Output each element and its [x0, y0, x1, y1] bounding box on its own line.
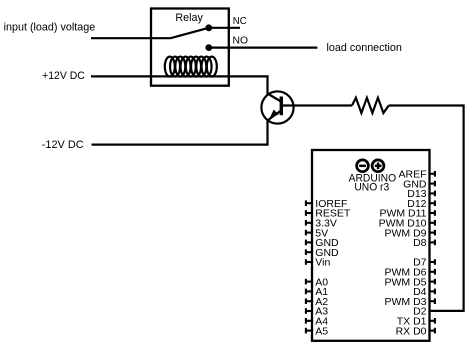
pin stub A3 (left) [306, 308, 313, 314]
svg-text:UNO r3: UNO r3 [354, 182, 389, 194]
wire: +12V line [91, 76, 268, 94]
logo minus [359, 165, 366, 168]
pin stub GND (left) [306, 249, 313, 255]
Q1 emitter arrow [270, 110, 279, 118]
svg-text:-12V DC: -12V DC [42, 139, 84, 151]
svg-text:RX D0: RX D0 [396, 325, 427, 337]
svg-text:D8: D8 [413, 237, 427, 249]
Arduino logo [357, 160, 384, 172]
wire: emitter to -12V [92, 120, 268, 145]
pin stub D13 (right) [429, 191, 435, 197]
pin stub D4 (right) [429, 289, 435, 295]
pin stub D7 (right) [429, 259, 435, 265]
resistor R1 [352, 98, 389, 113]
pin stub A0 (left) [306, 279, 313, 285]
relay coil L1 [165, 57, 217, 77]
logo right circle [372, 160, 384, 172]
wire: resistor to D2 [389, 106, 464, 311]
pin stub AREF (right) [429, 171, 435, 177]
pin stub Vin (left) [306, 259, 313, 265]
wire: input line [91, 37, 171, 39]
svg-text:input (load) voltage: input (load) voltage [4, 22, 96, 34]
pin stub D11 (right) [429, 210, 435, 216]
pin stub A4 (left) [306, 318, 313, 324]
wire: base lead [282, 104, 353, 106]
pin stub 3.3V (left) [306, 220, 313, 226]
relay K1 box [151, 9, 229, 86]
pin stub D6 (right) [429, 269, 435, 275]
pin stub A5 (left) [306, 328, 313, 334]
svg-text:A5: A5 [315, 325, 328, 337]
node: NO contact dot [205, 44, 212, 51]
Arduino U1 box [312, 150, 430, 341]
pin stub D10 (right) [429, 220, 435, 226]
Q1 emitter diagonal [268, 111, 282, 121]
Q1 collector diagonal [268, 94, 282, 102]
node: NC contact dot [205, 24, 212, 31]
pin stub D9 (right) [429, 230, 435, 236]
wire: NO line to load [209, 46, 318, 48]
pin stub GND (right) [429, 181, 435, 187]
pin stub A1 (left) [306, 289, 313, 295]
pin stub D5 (right) [429, 279, 435, 285]
svg-text:NO: NO [233, 36, 249, 47]
svg-text:Relay: Relay [175, 12, 203, 24]
wire: NC stub [209, 27, 240, 29]
pin stub IOREF (left) [306, 200, 313, 206]
svg-text:load connection: load connection [327, 42, 402, 54]
Q1 base bar [280, 97, 283, 116]
pin stub GND (left) [306, 240, 313, 246]
svg-text:NC: NC [233, 16, 247, 27]
pin stub D3 (right) [429, 298, 435, 304]
pin stub D0 (right) [429, 328, 435, 334]
pin stub 5V (left) [306, 230, 313, 236]
pin stub D8 (right) [429, 240, 435, 246]
logo plus [375, 165, 382, 168]
pin stub D12 (right) [429, 200, 435, 206]
relay switch arm [171, 28, 209, 38]
logo left circle [357, 160, 369, 172]
svg-text:+12V DC: +12V DC [42, 70, 85, 82]
pin stub A2 (left) [306, 298, 313, 304]
Q1 body circle [261, 91, 293, 123]
pin stub D1 (right) [429, 318, 435, 324]
transistor Q1 [261, 91, 293, 123]
svg-text:Vin: Vin [315, 257, 330, 269]
pin stub RESET (left) [306, 210, 313, 216]
